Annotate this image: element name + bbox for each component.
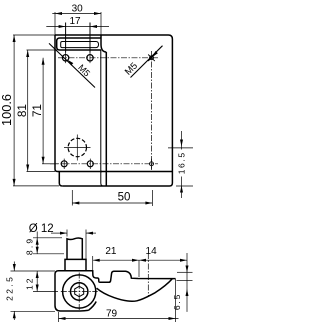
svg-text:21: 21	[105, 246, 117, 257]
svg-text:12: 12	[25, 277, 35, 290]
svg-text:14: 14	[146, 246, 158, 257]
svg-text:17: 17	[69, 16, 81, 27]
svg-text:30: 30	[72, 3, 84, 14]
svg-text:50: 50	[118, 191, 131, 203]
svg-text:79: 79	[106, 309, 118, 320]
svg-text:16.5: 16.5	[176, 151, 186, 174]
svg-text:8.9: 8.9	[25, 237, 35, 255]
svg-text:100.6: 100.6	[0, 94, 14, 126]
svg-text:22.5: 22.5	[5, 275, 15, 301]
svg-text:81: 81	[15, 104, 29, 117]
svg-text:6.5: 6.5	[172, 293, 182, 310]
svg-text:Ø 12: Ø 12	[29, 223, 54, 235]
svg-text:71: 71	[30, 104, 44, 117]
